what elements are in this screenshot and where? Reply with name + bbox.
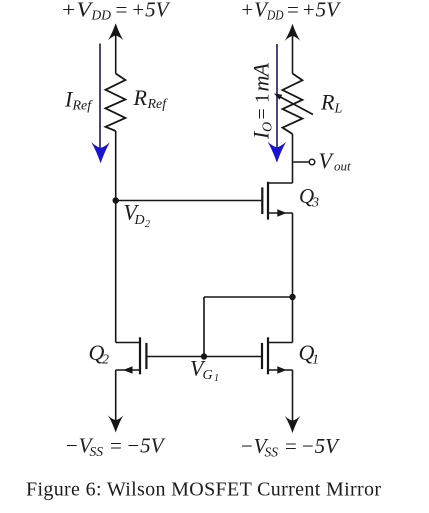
svg-text:Figure 6: Wilson MOSFET Curren: Figure 6: Wilson MOSFET Current Mirror [26, 479, 381, 501]
transistor Q1 [204, 337, 293, 374]
svg-text:1: 1 [214, 373, 219, 384]
resistor RL (adjustable) [283, 74, 303, 135]
wire RL to Q3 drain [292, 134, 294, 183]
power arrow VSS left [108, 415, 124, 432]
label VD2 [124, 200, 151, 231]
label Q3 [299, 184, 319, 211]
wire Q3 source to Q1 drain (through feedback node) [292, 213, 294, 343]
label Q2 [89, 340, 110, 368]
svg-text:SS: SS [265, 444, 279, 459]
power arrow VDD left [108, 23, 124, 40]
label VG1 [190, 356, 219, 385]
label Vout [319, 148, 352, 174]
svg-text:2: 2 [145, 219, 150, 230]
svg-text:R: R [133, 85, 148, 110]
label +VDD=+5V (left) [61, 0, 171, 23]
svg-text:O: O [261, 122, 276, 132]
label Q1 [299, 340, 320, 368]
svg-text:G: G [203, 368, 213, 383]
svg-text:DD: DD [266, 8, 284, 23]
wire VDD-left to RRef [115, 29, 117, 74]
svg-text:=: = [116, 0, 128, 21]
wire RRef to Q2 drain (through node VD2) [115, 131, 117, 343]
wire Q1 source to VSS arrow [292, 370, 294, 428]
current arrow IRef (blue) [91, 44, 110, 164]
svg-text:=: = [285, 434, 297, 458]
label +VDD=+5V (right) [240, 0, 341, 23]
svg-text:+5V: +5V [302, 0, 342, 21]
svg-text:Ref: Ref [147, 97, 169, 112]
power arrow VSS right [285, 416, 301, 433]
svg-text:= 1: = 1 [252, 93, 274, 119]
resistor RRef [106, 74, 126, 132]
node Q3 source / feedback [289, 294, 295, 300]
svg-text:3: 3 [311, 196, 319, 211]
svg-text:−5V: −5V [301, 434, 341, 458]
label IO = 1 mA (blue, rotated) [249, 62, 276, 140]
svg-text:=: = [287, 0, 299, 21]
svg-text:out: out [334, 159, 351, 174]
wire VD2 to Q3 gate [116, 200, 262, 202]
transistor Q2 [116, 337, 204, 374]
label RRef [133, 85, 169, 112]
wire VDD-right to RL [292, 30, 294, 74]
svg-text:R: R [320, 90, 335, 115]
feedback wire horizontal [204, 296, 293, 298]
svg-text:=: = [110, 433, 122, 457]
label -VSS=-5V (left) [65, 433, 166, 459]
transistor Q3 [262, 182, 292, 220]
rheostat arrow through RL [280, 97, 314, 115]
svg-text:D: D [134, 213, 145, 228]
Vout stub [293, 161, 309, 163]
svg-text:mA: mA [249, 62, 274, 91]
power arrow VDD right [285, 24, 301, 41]
svg-text:L: L [334, 102, 343, 117]
svg-text:V: V [319, 148, 335, 173]
label -VSS=-5V (right) [240, 434, 341, 460]
svg-text:+V: +V [61, 0, 94, 21]
svg-text:+5V: +5V [131, 0, 171, 21]
label IRef (blue) [64, 87, 93, 114]
feedback wire vertical to VG1 [203, 297, 205, 357]
node VG1 [201, 353, 207, 359]
svg-text:−5V: −5V [126, 433, 166, 457]
label RL [320, 90, 343, 117]
svg-text:Ref: Ref [72, 99, 94, 114]
svg-text:2: 2 [102, 353, 109, 368]
svg-text:SS: SS [90, 444, 104, 459]
Vout terminal circle [309, 159, 315, 165]
wire Q2 source to VSS arrow [115, 370, 117, 427]
svg-text:1: 1 [312, 353, 319, 368]
svg-text:+V: +V [240, 0, 269, 21]
svg-text:DD: DD [91, 8, 112, 23]
node VD2 [113, 197, 119, 203]
current arrow IO (blue) [268, 44, 287, 163]
